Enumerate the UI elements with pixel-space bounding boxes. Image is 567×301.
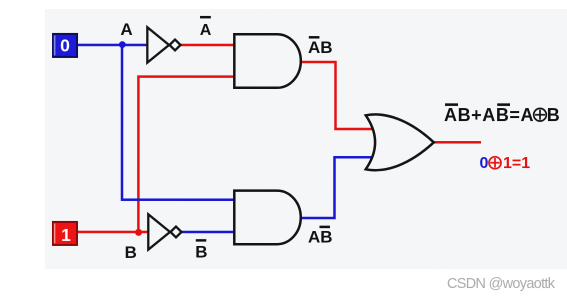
wire: red from inverter U1 output to AND U3 top input [180, 44, 234, 47]
wire: red from AND U3 output down to OR U5 top input [300, 62, 372, 129]
svg-text:1: 1 [61, 225, 71, 245]
svg-text:A: A [200, 22, 212, 39]
svg-text:CSDN @woyaottk: CSDN @woyaottk [447, 276, 556, 292]
wire: blue from inverter U2 output to AND U4 bottom input [181, 231, 234, 234]
label A B-bar (AND U4 output) [308, 227, 333, 247]
wire: red OR U5 output [433, 141, 481, 144]
inverter U2 (NOT gate for B) [148, 214, 181, 249]
wire: blue from node A down and right to AND U3 top input [122, 45, 234, 200]
svg-text:B: B [195, 243, 207, 262]
input box 1 (B input) [53, 222, 77, 245]
label A-bar (inverter U1 output) [200, 17, 212, 39]
svg-text:B: B [547, 105, 560, 125]
label A-bar B (AND U3 output) [308, 37, 333, 57]
svg-text:AB: AB [308, 38, 333, 57]
label B-bar (inverter U2 output) [195, 240, 207, 261]
svg-text:AB: AB [308, 228, 333, 247]
wire: red from input 1 to inverter U2 input (node B) [77, 231, 149, 234]
node B junction dot [135, 229, 142, 236]
node A junction dot [119, 41, 126, 48]
formula label: A-bar B + A B-bar = A xor B [444, 105, 560, 126]
svg-text:AB+AB=A: AB+AB=A [444, 105, 534, 125]
svg-text:0: 0 [479, 155, 488, 172]
inverter U1 (NOT gate for A) [147, 27, 180, 62]
AND gate U4 (inputs A, B-bar) [234, 191, 300, 245]
svg-text:1=1: 1=1 [503, 155, 530, 172]
svg-text:0: 0 [60, 36, 70, 56]
result label: 0 xor 1 = 1 [479, 155, 530, 172]
wire: red from node B up and right to AND U3 bottom input [138, 77, 234, 232]
wire: blue from input 0 to inverter U1 input (node A) [77, 44, 148, 47]
svg-text:B: B [125, 243, 137, 262]
OR gate U5 [366, 114, 434, 170]
input box 0 (A input) [53, 34, 77, 57]
svg-text:A: A [120, 20, 132, 39]
diagram background panel [45, 9, 567, 269]
wire: blue from AND U4 output up to OR U5 bottom input [300, 157, 372, 218]
AND gate U3 (inputs A-bar, B) [234, 34, 301, 88]
